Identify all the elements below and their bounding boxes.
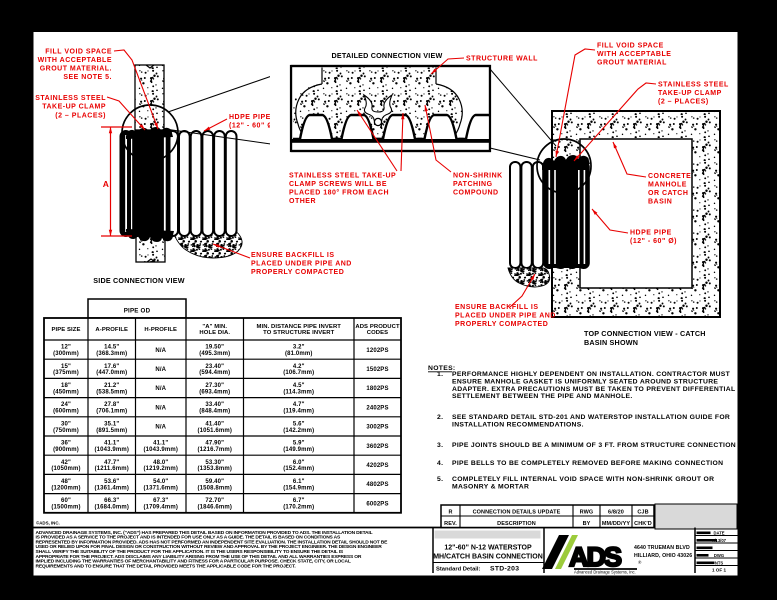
svg-text:14.5": 14.5"	[104, 345, 119, 351]
svg-text:(12" - 60" Ø): (12" - 60" Ø)	[630, 238, 677, 245]
svg-text:4.7": 4.7"	[293, 402, 305, 408]
svg-text:(1846.6mm): (1846.6mm)	[197, 505, 232, 511]
svg-text:(106.7mm): (106.7mm)	[283, 370, 314, 376]
svg-text:GROUT MATERIAL: GROUT MATERIAL	[597, 60, 667, 67]
svg-text:4202PS: 4202PS	[366, 463, 388, 469]
svg-text:SEE NOTE 5.: SEE NOTE 5.	[63, 74, 112, 81]
svg-text:CONCRETE: CONCRETE	[648, 173, 691, 180]
svg-text:33.40": 33.40"	[205, 402, 224, 408]
svg-text:SEE STANDARD DETAIL STD-201 AN: SEE STANDARD DETAIL STD-201 AND WATERSTO…	[452, 414, 730, 421]
svg-text:6.7": 6.7"	[293, 498, 305, 504]
svg-text:2.: 2.	[437, 414, 443, 421]
svg-text:ADS: ADS	[569, 542, 621, 572]
svg-text:(1216.7mm): (1216.7mm)	[197, 447, 232, 453]
svg-text:PLACED UNDER PIPE AND: PLACED UNDER PIPE AND	[455, 313, 556, 320]
svg-text:PIPE JOINTS SHOULD BE A MINIMU: PIPE JOINTS SHOULD BE A MINIMUM OF 3 FT.…	[452, 442, 736, 449]
svg-text:(706.1mm): (706.1mm)	[96, 409, 127, 415]
svg-text:FILL VOID SPACE: FILL VOID SPACE	[45, 49, 112, 56]
svg-text:(900mm): (900mm)	[53, 447, 79, 453]
svg-text:(848.4mm): (848.4mm)	[199, 409, 230, 415]
svg-text:(170.2mm): (170.2mm)	[283, 505, 314, 511]
svg-text:4.2": 4.2"	[293, 364, 305, 370]
svg-text:R: R	[448, 510, 452, 516]
svg-text:PLACED UNDER PIPE AND: PLACED UNDER PIPE AND	[251, 261, 352, 268]
svg-text:36": 36"	[61, 441, 71, 447]
svg-text:(2 – PLACES): (2 – PLACES)	[55, 112, 106, 119]
svg-text:19.50": 19.50"	[205, 345, 224, 351]
svg-text:3602PS: 3602PS	[366, 444, 388, 450]
svg-text:(1371.6mm): (1371.6mm)	[143, 485, 178, 491]
svg-text:DWG: DWG	[714, 553, 724, 558]
svg-text:OTHER: OTHER	[289, 198, 316, 205]
svg-text:COMPLETELY FILL INTERNAL VOID: COMPLETELY FILL INTERNAL VOID SPACE WITH…	[452, 476, 714, 483]
svg-text:MASONRY & MORTAR: MASONRY & MORTAR	[452, 483, 529, 490]
svg-text:21.2": 21.2"	[104, 383, 119, 389]
svg-text:NON-SHRINK: NON-SHRINK	[453, 173, 503, 180]
svg-text:48": 48"	[61, 479, 71, 485]
svg-text:24": 24"	[61, 402, 71, 408]
svg-text:HDPE PIPE: HDPE PIPE	[630, 230, 672, 237]
svg-text:CLAMP SCREWS WILL BE: CLAMP SCREWS WILL BE	[289, 181, 387, 188]
svg-text:HILLIARD, OHIO 43026: HILLIARD, OHIO 43026	[634, 553, 692, 559]
svg-text:REQUIREMENTS AND TO ENSURE THA: REQUIREMENTS AND TO ENSURE THAT THE DETA…	[36, 563, 297, 569]
svg-text:12"-60" N-12 WATERSTOP: 12"-60" N-12 WATERSTOP	[444, 545, 532, 552]
svg-text:15": 15"	[61, 364, 71, 370]
svg-text:(693.4mm): (693.4mm)	[199, 389, 230, 395]
svg-text:GROUT MATERIAL.: GROUT MATERIAL.	[40, 66, 112, 73]
svg-text:ENSURE MANHOLE GASKET IS UNIFO: ENSURE MANHOLE GASKET IS UNIFORMLY SEATE…	[452, 378, 718, 385]
svg-text:N/A: N/A	[155, 386, 166, 392]
svg-text:SETTLEMENT BETWEEN THE PIPE AN: SETTLEMENT BETWEEN THE PIPE AND MANHOLE.	[452, 393, 633, 400]
svg-text:18": 18"	[61, 383, 71, 389]
svg-text:CJB: CJB	[637, 510, 648, 516]
svg-text:(1043.9mm): (1043.9mm)	[143, 447, 178, 453]
svg-text:STD-203: STD-203	[490, 566, 519, 573]
svg-text:WITH ACCEPTABLE: WITH ACCEPTABLE	[597, 51, 671, 58]
svg-text:(368.3mm): (368.3mm)	[96, 351, 127, 357]
svg-text:(495.3mm): (495.3mm)	[199, 351, 230, 357]
svg-text:(1051.6mm): (1051.6mm)	[197, 428, 232, 434]
svg-text:30": 30"	[61, 421, 71, 427]
svg-text:5.9": 5.9"	[293, 441, 305, 447]
svg-text:(447.0mm): (447.0mm)	[96, 370, 127, 376]
svg-text:(375mm): (375mm)	[53, 370, 79, 376]
svg-text:(154.9mm): (154.9mm)	[283, 485, 314, 491]
svg-text:MH/CATCH BASIN CONNECTION: MH/CATCH BASIN CONNECTION	[433, 554, 543, 561]
svg-text:3.: 3.	[437, 442, 443, 449]
svg-text:12": 12"	[61, 345, 71, 351]
svg-text:6.1": 6.1"	[293, 479, 305, 485]
svg-text:41.1": 41.1"	[104, 441, 119, 447]
svg-text:27.8": 27.8"	[104, 402, 119, 408]
svg-text:47.90": 47.90"	[205, 441, 224, 447]
svg-text:RWG: RWG	[580, 510, 594, 516]
svg-text:(1709.4mm): (1709.4mm)	[143, 505, 178, 511]
svg-text:35.1": 35.1"	[104, 421, 119, 427]
svg-text:BASIN: BASIN	[648, 199, 672, 206]
svg-text:(594.4mm): (594.4mm)	[199, 370, 230, 376]
svg-text:DETAILED CONNECTION VIEW: DETAILED CONNECTION VIEW	[332, 51, 443, 60]
svg-text:6.0": 6.0"	[293, 460, 305, 466]
svg-text:SIDE CONNECTION VIEW: SIDE CONNECTION VIEW	[93, 276, 184, 285]
svg-text:47.7": 47.7"	[104, 460, 119, 466]
svg-text:(1043.9mm): (1043.9mm)	[94, 447, 129, 453]
svg-text:NTS: NTS	[715, 561, 724, 566]
svg-text:4.5": 4.5"	[293, 383, 305, 389]
svg-text:(538.5mm): (538.5mm)	[96, 389, 127, 395]
svg-text:PERFORMANCE HIGHLY DEPENDENT O: PERFORMANCE HIGHLY DEPENDENT ON INSTALLA…	[452, 371, 731, 378]
svg-text:HOLE DIA.: HOLE DIA.	[199, 330, 230, 336]
svg-text:A-PROFILE: A-PROFILE	[95, 327, 128, 333]
svg-text:STAINLESS STEEL: STAINLESS STEEL	[658, 82, 729, 89]
svg-text:ENSURE BACKFILL IS: ENSURE BACKFILL IS	[455, 304, 539, 311]
svg-text:41.40": 41.40"	[205, 421, 224, 427]
svg-text:60": 60"	[61, 498, 71, 504]
svg-text:PROPERLY COMPACTED: PROPERLY COMPACTED	[251, 269, 344, 276]
svg-text:(1500mm): (1500mm)	[51, 505, 80, 511]
svg-text:FILL VOID SPACE: FILL VOID SPACE	[597, 43, 664, 50]
svg-text:CONNECTION DETAILS UPDATE: CONNECTION DETAILS UPDATE	[473, 510, 561, 516]
svg-text:BASIN SHOWN: BASIN SHOWN	[584, 338, 638, 347]
svg-text:72.70": 72.70"	[205, 498, 224, 504]
svg-text:(81.0mm): (81.0mm)	[285, 351, 313, 357]
svg-text:(1050mm): (1050mm)	[51, 466, 80, 472]
svg-text:(2 – PLACES): (2 – PLACES)	[658, 99, 709, 106]
svg-text:BY: BY	[583, 521, 591, 527]
svg-text:23.40": 23.40"	[205, 364, 224, 370]
svg-text:PIPE SIZE: PIPE SIZE	[51, 327, 80, 333]
svg-text:(600mm): (600mm)	[53, 409, 79, 415]
svg-text:1.: 1.	[437, 371, 443, 378]
svg-text:TO STRUCTURE INVERT: TO STRUCTURE INVERT	[263, 330, 334, 336]
svg-text:CHK'D: CHK'D	[634, 521, 652, 527]
svg-text:PLACED 180° FROM EACH: PLACED 180° FROM EACH	[289, 189, 389, 197]
svg-text:(152.4mm): (152.4mm)	[283, 466, 314, 472]
svg-text:Standard Detail:: Standard Detail:	[436, 567, 481, 573]
svg-text:INSTALLATION RECOMMENDATIONS.: INSTALLATION RECOMMENDATIONS.	[452, 421, 584, 428]
svg-text:CODES: CODES	[367, 330, 388, 336]
svg-text:STRUCTURE WALL: STRUCTURE WALL	[466, 56, 538, 63]
svg-text:67.3": 67.3"	[153, 498, 168, 504]
svg-text:42": 42"	[61, 460, 71, 466]
svg-text:27.30": 27.30"	[205, 383, 224, 389]
svg-text:(119.4mm): (119.4mm)	[283, 409, 314, 415]
svg-text:©ADS, INC.: ©ADS, INC.	[36, 521, 60, 526]
svg-text:(1200mm): (1200mm)	[51, 485, 80, 491]
svg-text:(149.9mm): (149.9mm)	[283, 447, 314, 453]
svg-text:N/A: N/A	[155, 348, 166, 354]
svg-text:(114.3mm): (114.3mm)	[283, 389, 314, 395]
svg-text:41.1": 41.1"	[153, 441, 168, 447]
svg-text:1202PS: 1202PS	[366, 348, 388, 354]
svg-text:TOP CONNECTION VIEW - CATCH: TOP CONNECTION VIEW - CATCH	[584, 329, 706, 338]
svg-text:STAINLESS STEEL: STAINLESS STEEL	[35, 95, 106, 102]
svg-text:48.0": 48.0"	[153, 460, 168, 466]
svg-text:MANHOLE: MANHOLE	[648, 182, 687, 189]
svg-text:HDPE PIPE: HDPE PIPE	[229, 114, 271, 121]
svg-text:(450mm): (450mm)	[53, 389, 79, 395]
svg-text:6002PS: 6002PS	[366, 501, 388, 507]
svg-text:2402PS: 2402PS	[366, 405, 388, 411]
svg-text:PATCHING: PATCHING	[453, 181, 493, 188]
svg-text:PROPERLY COMPACTED: PROPERLY COMPACTED	[455, 321, 548, 328]
svg-text:OR CATCH: OR CATCH	[648, 190, 688, 197]
svg-text:MM/DD/YY: MM/DD/YY	[602, 521, 631, 527]
svg-text:6/8/20: 6/8/20	[608, 510, 624, 516]
svg-text:H-PROFILE: H-PROFILE	[144, 327, 177, 333]
svg-text:ENSURE BACKFILL IS: ENSURE BACKFILL IS	[251, 252, 335, 259]
svg-text:N/A: N/A	[155, 425, 166, 431]
svg-text:(142.2mm): (142.2mm)	[283, 428, 314, 434]
svg-text:N/A: N/A	[155, 405, 166, 411]
svg-text:(1361.4mm): (1361.4mm)	[94, 485, 129, 491]
svg-text:(1219.2mm): (1219.2mm)	[143, 466, 178, 472]
svg-text:TAKE-UP CLAMP: TAKE-UP CLAMP	[658, 90, 722, 97]
svg-text:TAKE-UP CLAMP: TAKE-UP CLAMP	[42, 104, 106, 111]
svg-text:(1508.8mm): (1508.8mm)	[197, 485, 232, 491]
svg-text:1 OF 1: 1 OF 1	[712, 568, 726, 573]
svg-text:STAINLESS STEEL TAKE-UP: STAINLESS STEEL TAKE-UP	[289, 173, 396, 180]
svg-text:(12" - 60" Ø): (12" - 60" Ø)	[229, 123, 276, 130]
svg-text:3.2": 3.2"	[293, 345, 305, 351]
svg-text:53.30": 53.30"	[205, 460, 224, 466]
svg-text:5.: 5.	[437, 476, 443, 483]
svg-text:5.6": 5.6"	[293, 421, 305, 427]
svg-text:A: A	[103, 179, 110, 189]
svg-text:(1211.6mm): (1211.6mm)	[95, 466, 129, 472]
svg-text:3002PS: 3002PS	[366, 425, 388, 431]
svg-text:4802PS: 4802PS	[366, 482, 388, 488]
svg-text:Advanced Drainage Systems, Inc: Advanced Drainage Systems, Inc.	[574, 570, 636, 575]
svg-text:COMPOUND: COMPOUND	[453, 190, 499, 197]
svg-text:ADAPTER. EXTRA PRECAUTIONS MUS: ADAPTER. EXTRA PRECAUTIONS MUST BE TAKEN…	[452, 386, 735, 393]
svg-text:(300mm): (300mm)	[53, 351, 79, 357]
svg-text:(1684.0mm): (1684.0mm)	[94, 505, 129, 511]
svg-text:(750mm): (750mm)	[53, 428, 79, 434]
svg-text:1502PS: 1502PS	[366, 367, 388, 373]
svg-text:(1353.8mm): (1353.8mm)	[197, 466, 232, 472]
svg-text:N/A: N/A	[155, 367, 166, 373]
svg-text:1802PS: 1802PS	[366, 386, 388, 392]
svg-text:54.0": 54.0"	[153, 479, 168, 485]
svg-text:PIPE BELLS TO BE COMPLETELY RE: PIPE BELLS TO BE COMPLETELY REMOVED BEFO…	[452, 460, 723, 467]
svg-text:DATE: DATE	[713, 531, 724, 536]
svg-text:59.40": 59.40"	[205, 479, 224, 485]
svg-text:4640 TRUEMAN BLVD: 4640 TRUEMAN BLVD	[634, 545, 690, 551]
svg-text:(891.5mm): (891.5mm)	[96, 428, 127, 434]
svg-text:DESCRIPTION: DESCRIPTION	[497, 521, 536, 527]
svg-text:WITH ACCEPTABLE: WITH ACCEPTABLE	[38, 57, 112, 64]
svg-text:4.: 4.	[437, 460, 443, 467]
svg-text:66.3": 66.3"	[104, 498, 119, 504]
svg-text:REV.: REV.	[444, 521, 457, 527]
svg-text:7/13/07: 7/13/07	[712, 538, 727, 543]
svg-text:53.6": 53.6"	[104, 479, 119, 485]
svg-text:PIPE OD: PIPE OD	[124, 308, 151, 315]
svg-text:17.6": 17.6"	[104, 364, 119, 370]
